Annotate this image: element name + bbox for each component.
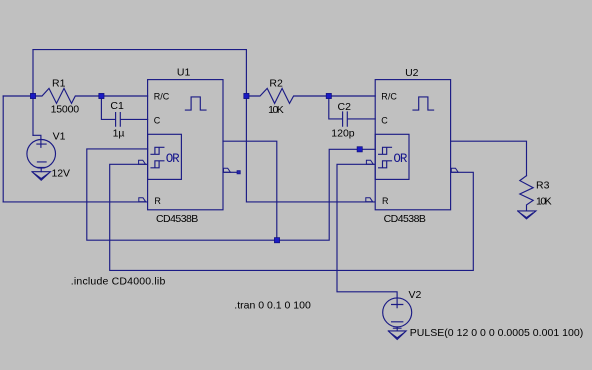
svg-text:.include CD4000.lib: .include CD4000.lib [71,276,166,288]
IC U1 pulse icon [185,97,206,110]
IC U2 box [375,80,450,210]
voltage source V2 [383,298,412,331]
svg-text:R3: R3 [536,179,550,191]
wire U2 Q to U1 B input net [110,164,474,270]
svg-text:10K: 10K [268,104,284,116]
wire V2 to U2 B input net [337,164,397,307]
node junction at R2/C2 [326,93,331,98]
svg-text:120p: 120p [331,127,354,139]
resistor R3 [520,176,533,211]
resistor R2 [246,88,328,103]
pin triangle U1 Q output [224,168,231,172]
IC U2 pulse icon [413,97,434,110]
svg-text:C: C [154,115,161,125]
node junction at R2 left [244,93,249,98]
wire V1 top jog [33,135,41,147]
wire U1 Q-bar to A inputs net [87,141,375,240]
ground below V1 [32,172,50,181]
svg-text:.tran 0 0.1 0 100: .tran 0 0.1 0 100 [234,300,311,312]
IC U1 edge glyph 1 [151,147,164,154]
wire U2 reset net from R2 node [246,50,374,202]
IC U2 edge glyph 1 [379,147,392,154]
svg-text:R1: R1 [52,77,66,89]
IC U1 trigger sub-box [148,134,182,179]
wire C2 branch [329,96,342,119]
pin triangle U2 B input [366,160,373,164]
voltage source V1 [27,140,56,172]
node junction at V1/R1 [30,93,35,98]
svg-text:U2: U2 [405,67,419,79]
ground below V2 [388,331,406,340]
ground below R3 [518,211,536,219]
svg-text:R2: R2 [269,77,283,89]
wire U1 Q stub [223,171,237,173]
svg-text:CD4538B: CD4538B [384,213,426,225]
svg-text:OR: OR [393,152,407,166]
svg-text:C1: C1 [110,100,124,112]
wire left vertical from top to node A [32,50,34,136]
svg-text:CD4538B: CD4538B [156,213,198,225]
svg-text:R: R [154,196,161,206]
svg-text:V1: V1 [53,130,66,142]
wire top feedback [33,49,246,51]
svg-text:OR: OR [166,152,180,166]
resistor R1 [33,88,148,103]
node junction at R1/C1 [99,93,104,98]
node junction bottom net [274,238,279,243]
svg-text:C: C [381,115,388,125]
pin end square U1 Q [237,171,240,174]
svg-text:R/C: R/C [154,91,170,101]
svg-text:R/C: R/C [381,91,397,101]
svg-text:12V: 12V [52,167,71,179]
svg-text:15000: 15000 [51,103,80,115]
IC U1 edge glyph 2 [151,161,164,168]
wire left rail vertical [2,96,4,202]
wire U2 Q-bar to R3 [451,141,527,176]
svg-text:U1: U1 [177,67,191,79]
wire U1 R reset net [3,201,147,203]
node junction U2 A wire [357,147,362,152]
svg-text:V2: V2 [409,289,422,301]
pin triangle U1 R input [139,198,146,202]
svg-text:1µ: 1µ [113,128,125,140]
wire C1 branch [101,96,115,119]
svg-text:R: R [382,196,389,206]
pin triangle U2 R input [366,198,373,202]
wire node A to left rail [3,95,33,97]
pin triangle U2 Q output [451,168,458,172]
IC U2 trigger sub-box [375,134,409,179]
pin triangle U1 B input [139,160,146,164]
wire U2 R/C pin [329,95,375,97]
svg-text:10K: 10K [536,196,552,208]
capacitor C2 [343,112,376,126]
IC U1 box [148,80,223,210]
svg-text:C2: C2 [338,101,352,113]
IC U2 edge glyph 2 [379,161,392,168]
svg-text:PULSE(0 12 0 0 0 0.0005 0.001: PULSE(0 12 0 0 0 0.0005 0.001 100) [410,327,584,339]
capacitor C1 [116,113,148,127]
